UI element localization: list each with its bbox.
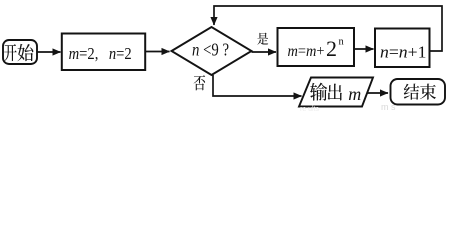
label 输出 m (310, 83, 342, 101)
process box n=n+1 (375, 29, 430, 68)
svg-text:m=m+: m=m+ (288, 42, 325, 60)
decision diamond n<9? (172, 27, 252, 75)
svg-text:re ults: re ults (300, 106, 320, 112)
wire diamond bottom to output (no branch) (213, 75, 302, 96)
svg-text:n: n (339, 36, 345, 47)
svg-text:m: m (348, 84, 361, 104)
terminal 开始 (Start) (3, 40, 37, 64)
wire start to init box (37, 51, 61, 53)
svg-text:n=2: n=2 (109, 44, 132, 63)
svg-text:m s: m s (381, 102, 396, 112)
wire diamond to m box (yes branch) (252, 51, 277, 53)
svg-text:n=n+1: n=n+1 (380, 42, 427, 61)
svg-text:m=2,: m=2, (69, 44, 99, 63)
wire init box to diamond (145, 51, 169, 53)
label 否 (no) (194, 75, 206, 90)
process box m=2, n=2 (62, 34, 145, 71)
label 是 (yes) (257, 33, 268, 45)
io parallelogram 输出 m (299, 78, 373, 107)
terminal 结束 (End) (391, 79, 446, 105)
label 开始 text (4, 44, 33, 61)
process box m=m+2^n (278, 28, 355, 66)
label 结束 text (404, 84, 436, 100)
wire m box to n box (354, 48, 374, 50)
svg-text:2: 2 (326, 36, 337, 61)
svg-text:n <9 ?: n <9 ? (192, 39, 229, 59)
wire output to end (367, 92, 388, 94)
feedback wire n box to diamond top (214, 6, 442, 51)
